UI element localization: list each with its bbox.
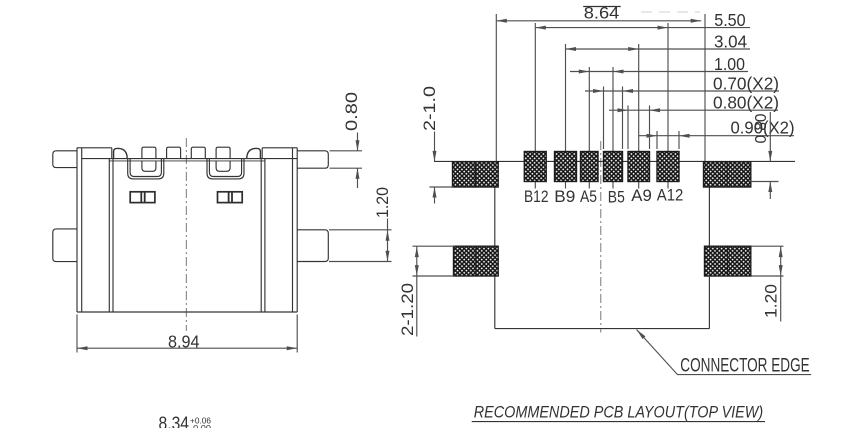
svg-text:8.94: 8.94 bbox=[168, 332, 200, 352]
svg-text:5.50: 5.50 bbox=[714, 10, 746, 30]
svg-text:2-1.0: 2-1.0 bbox=[421, 86, 439, 131]
svg-text:1.20: 1.20 bbox=[373, 187, 392, 218]
svg-text:-0.00: -0.00 bbox=[190, 423, 211, 428]
svg-text:B9: B9 bbox=[554, 188, 575, 206]
svg-text:0.80: 0.80 bbox=[342, 92, 361, 131]
svg-text:A12: A12 bbox=[657, 187, 684, 205]
svg-text:0.80(X2): 0.80(X2) bbox=[713, 93, 779, 113]
svg-text:8.34: 8.34 bbox=[159, 414, 190, 428]
svg-text:CONNECTOR EDGE: CONNECTOR EDGE bbox=[680, 356, 809, 377]
svg-text:RECOMMENDED PCB LAYOUT(TOP: RECOMMENDED PCB LAYOUT(TOP VIEW) bbox=[474, 403, 764, 422]
svg-text:A5: A5 bbox=[580, 188, 597, 206]
svg-text:B5: B5 bbox=[608, 189, 625, 207]
svg-text:0.80: 0.80 bbox=[753, 113, 770, 143]
svg-text:8.64: 8.64 bbox=[584, 5, 620, 23]
svg-text:3.04: 3.04 bbox=[714, 32, 747, 52]
svg-text:A9: A9 bbox=[631, 187, 652, 205]
svg-text:1.00: 1.00 bbox=[714, 54, 745, 74]
svg-text:B12: B12 bbox=[524, 188, 549, 206]
svg-text:0.70(X2): 0.70(X2) bbox=[713, 74, 779, 94]
svg-text:1.20: 1.20 bbox=[763, 284, 781, 318]
svg-text:2-1.20: 2-1.20 bbox=[399, 283, 417, 336]
